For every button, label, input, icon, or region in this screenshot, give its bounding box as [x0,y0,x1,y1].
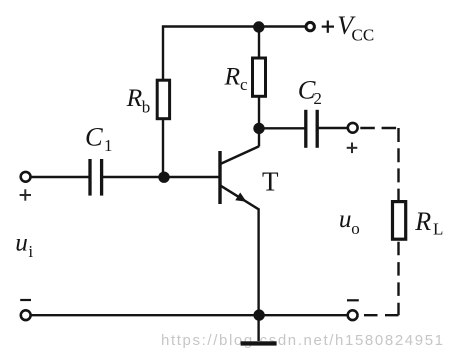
wire top rail from Rb top to Vcc terminal [163,27,305,80]
minus sign input [20,299,31,301]
dashed wire output top to RL [359,127,399,129]
node base junction [158,172,169,183]
svg-text:CC: CC [352,26,375,45]
transistor emitter arrowhead [235,193,246,202]
svg-text:R: R [414,207,431,236]
resistor RL [393,202,406,240]
wire Rc bottom lead to collector node [258,98,260,147]
svg-text:2: 2 [313,89,322,108]
terminal Vcc [306,22,314,30]
resistor Rb [157,80,169,119]
wire C2 to output terminal [318,127,347,129]
wire Rc top lead [258,27,260,58]
transistor Q1 T [220,146,259,209]
svg-text:i: i [28,242,33,261]
plus sign output [347,143,358,154]
minus sign output [347,299,359,301]
wire input to C1 [31,176,89,178]
terminal input plus [21,172,31,182]
svg-text:o: o [351,219,360,238]
svg-text:c: c [240,75,248,94]
svg-text:1: 1 [104,136,113,155]
capacitor C1 [90,159,102,196]
svg-text:b: b [142,98,151,117]
node collector junction [253,123,264,134]
terminal output plus [348,123,358,133]
svg-text:u: u [339,206,352,233]
plus sign Vcc label [322,21,334,33]
node top rail junction [253,21,264,32]
wire Rb bottom lead [162,120,164,177]
svg-text:u: u [15,230,28,257]
resistor Rc [253,58,266,96]
plus sign input [20,189,31,200]
wire bottom rail [31,314,347,316]
wire collector node to C2 [259,127,305,129]
dashed wire RL to output bottom [397,242,399,315]
wire emitter vertical to bottom rail and ground lead [257,208,259,341]
svg-text:L: L [433,219,443,238]
terminal output minus [348,310,358,320]
svg-text:T: T [262,166,279,196]
svg-text:R: R [126,83,143,112]
terminal input minus [21,310,31,320]
svg-text:C: C [85,122,103,152]
wire C1 to base [103,176,219,178]
ground [241,341,277,345]
svg-text:https://blog.csdn.net/h1580824: https://blog.csdn.net/h1580824951 [161,332,443,349]
capacitor C2 [306,110,317,148]
svg-text:R: R [224,61,241,90]
node bottom rail junction [253,309,264,320]
